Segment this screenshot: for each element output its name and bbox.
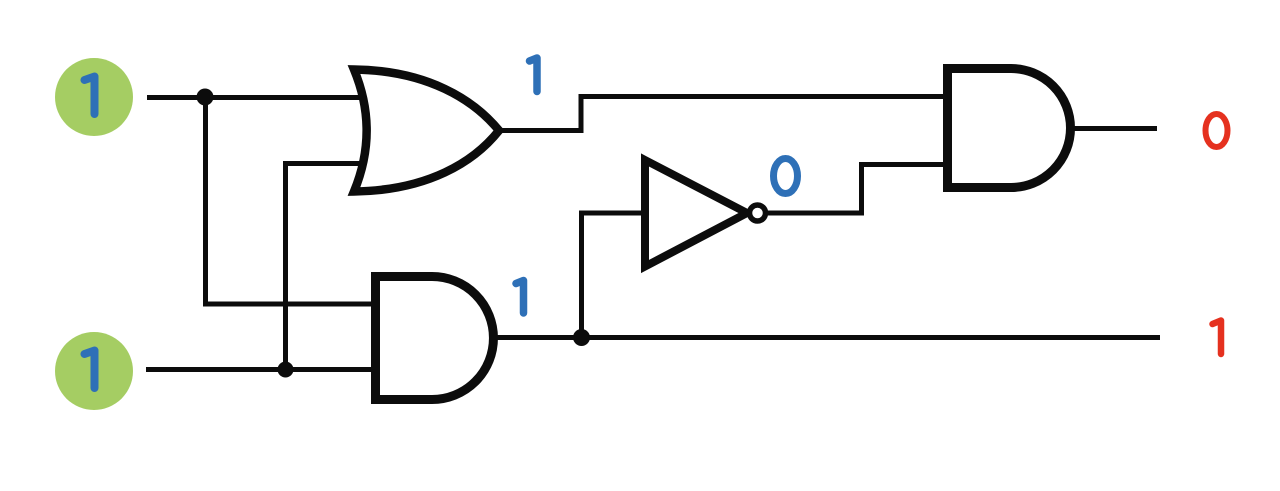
wire from node C up to NOT input [582, 213, 647, 338]
wire NOT output to AND2 bottom input [768, 165, 947, 214]
wire input A horizontal to OR gate [147, 95, 372, 100]
input A value 1 [85, 77, 95, 115]
input B value 1 [85, 351, 95, 389]
NOT gate G3 triangle [645, 160, 747, 267]
wire OR output to AND2 top input [499, 97, 947, 131]
wire AND1 output long to right edge [494, 335, 1160, 340]
wire from node A down and right to AND1 top input [206, 98, 379, 305]
net label 1 at OR output [530, 58, 538, 92]
input B green terminal [55, 332, 133, 410]
output value 0 red [1206, 114, 1228, 147]
AND gate G2 bottom [376, 277, 494, 400]
output value 1 red [1213, 321, 1222, 355]
wire AND2 output [1072, 126, 1157, 131]
AND gate G4 top right [948, 69, 1071, 188]
wire input B horizontal to AND1 [146, 367, 378, 372]
net label 0 at NOT output [774, 159, 798, 194]
node A junction dot [197, 89, 214, 106]
net label 1 at AND1 output [516, 281, 524, 314]
node C junction dot [573, 329, 590, 346]
wire from node B up and right to OR bottom input [286, 164, 373, 370]
input A green terminal [55, 58, 133, 136]
node B junction dot [278, 362, 294, 378]
OR gate G1 [354, 70, 499, 192]
NOT gate G3 bubble [750, 205, 766, 221]
